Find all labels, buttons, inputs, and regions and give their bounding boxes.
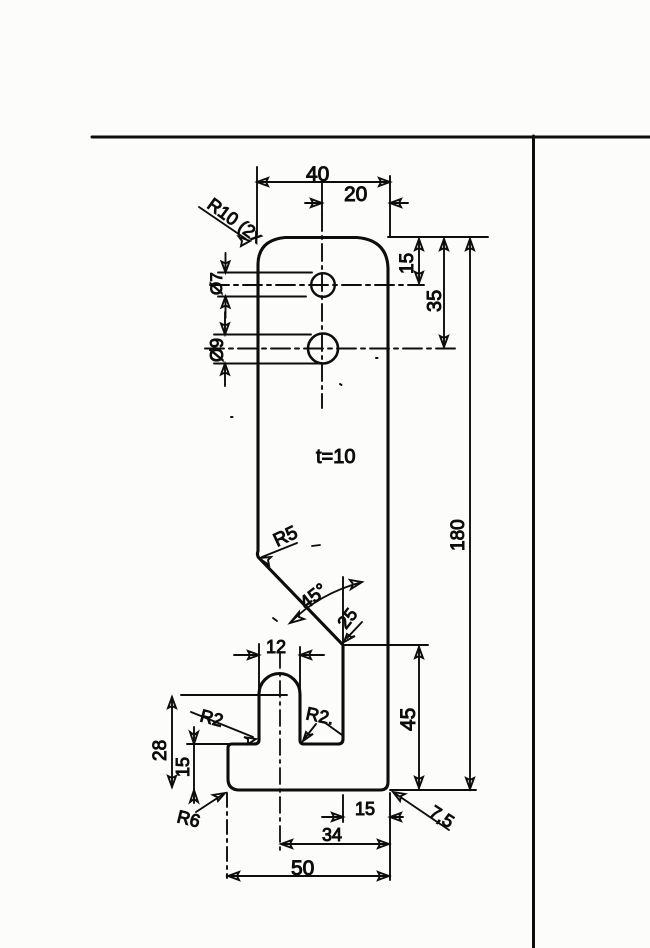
centerline finger vertical [279,652,281,855]
svg-text:40: 40 [306,163,329,186]
bottom edge extension right [390,789,476,791]
svg-text:20: 20 [344,183,367,206]
hole 1 diameter 7 [311,273,335,297]
svg-text:12: 12 [266,637,286,657]
centerline vertical through holes [321,214,323,408]
svg-text:180: 180 [448,519,469,551]
dim 15 left [187,727,232,803]
stray dash right of R5 [312,545,320,546]
label 25 + leader [344,622,362,642]
dim 45 [343,645,428,788]
label 7,5 + leader [393,792,449,830]
label R2 left + leader [191,712,256,744]
svg-text:15: 15 [397,253,418,274]
dim 35 [440,239,448,347]
centerline hole 2 horizontal [205,348,455,350]
label R5 + leader [259,543,297,565]
svg-text:7,5: 7,5 [426,802,458,832]
svg-text:15: 15 [355,799,375,819]
stray dot below hole 2 [376,357,378,359]
svg-text:Ø7: Ø7 [207,272,226,295]
dim 50 [227,793,389,880]
dim 45 degrees arc [290,577,362,644]
hole 2 diameter 9 [308,334,338,364]
svg-text:15: 15 [173,757,193,777]
dim 40 [257,167,390,236]
stray dot above finger [340,384,342,385]
label R6 + leader [196,793,225,812]
dim 12 [234,644,324,709]
centerline hole 1 horizontal [210,284,424,286]
label R10 (2x) + leader [199,207,250,246]
label R2 right + leaders [303,722,342,741]
svg-text:35: 35 [424,290,446,312]
top dim 20 extension [321,182,323,214]
svg-text:R2: R2 [198,706,225,731]
sheet border vertical line [532,136,535,948]
dim 15 right [388,237,488,283]
part outline [228,238,388,791]
stray speck near chamfer [273,618,277,621]
dim 180 [466,239,474,789]
dim 20 [305,199,408,207]
svg-text:34: 34 [322,825,342,845]
svg-text:45: 45 [397,708,420,731]
dim 34 [281,793,390,880]
sheet border horizontal line [92,136,650,139]
svg-text:R6: R6 [175,806,202,831]
svg-text:R5: R5 [270,522,301,551]
stray dot left edge [231,416,233,418]
svg-text:50: 50 [291,857,314,880]
dim 15 bottom [322,795,403,822]
svg-text:R2.: R2. [304,703,336,728]
dim diameter 9 [214,312,320,386]
dim 28 [168,695,287,787]
svg-text:Ø9: Ø9 [207,338,227,362]
svg-text:45°: 45° [296,580,332,614]
dim diameter 7 [218,253,312,318]
svg-text:t=10: t=10 [316,446,355,468]
svg-text:28: 28 [150,740,171,761]
